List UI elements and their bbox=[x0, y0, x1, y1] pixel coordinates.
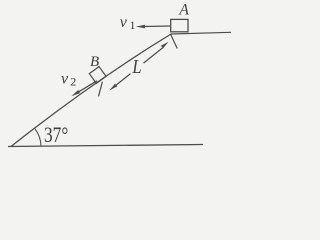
incline surface bbox=[11, 34, 171, 147]
svg-text:v: v bbox=[61, 71, 69, 88]
block A bbox=[171, 19, 188, 31]
velocity arrow v1 bbox=[136, 25, 171, 29]
svg-text:v: v bbox=[120, 14, 128, 31]
distance L dimension line with end arrowheads bbox=[110, 42, 169, 91]
angle arc 37 degrees bbox=[35, 129, 41, 146]
svg-text:B: B bbox=[90, 54, 99, 70]
svg-text:A: A bbox=[178, 2, 189, 19]
lower tick at start of L near B bbox=[99, 82, 103, 97]
svg-text:2: 2 bbox=[70, 75, 76, 89]
upper horizontal surface bbox=[171, 32, 231, 34]
svg-text:1: 1 bbox=[130, 18, 136, 32]
svg-text:37°: 37° bbox=[44, 123, 68, 147]
svg-text:L: L bbox=[131, 56, 141, 78]
velocity arrow v2 bbox=[71, 81, 97, 97]
block B bbox=[89, 67, 106, 84]
upper tick at end of L bbox=[170, 34, 177, 49]
ground base line bbox=[8, 145, 203, 147]
